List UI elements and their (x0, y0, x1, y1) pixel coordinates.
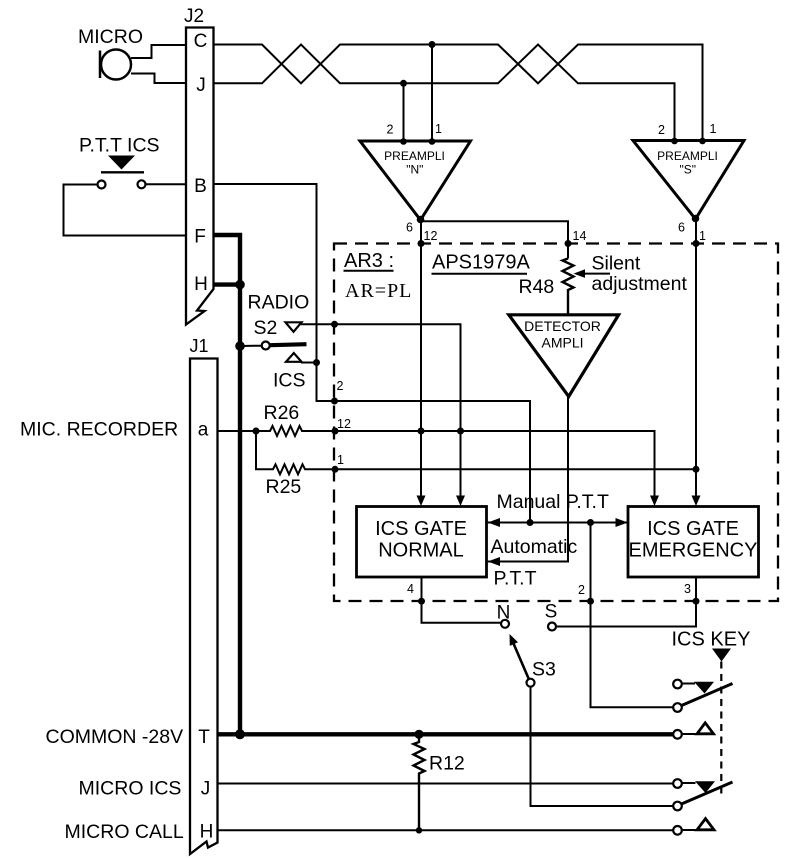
node T junction with F-H line (235, 729, 245, 739)
switch S2 pole contact (262, 342, 270, 350)
ics key switch 1 lever (682, 684, 733, 706)
common -28V end contact (673, 730, 682, 739)
svg-text:APS1979A: APS1979A (432, 252, 531, 274)
svg-text:COMMON -28V: COMMON -28V (46, 726, 184, 748)
svg-text:1: 1 (710, 122, 717, 136)
switch S2 lever (270, 344, 306, 345)
common -28V open triangle (697, 723, 714, 734)
svg-text:H: H (200, 822, 214, 843)
svg-text:F: F (194, 227, 206, 248)
svg-text:AR=PL: AR=PL (345, 280, 412, 302)
connector J2 body (186, 28, 214, 325)
svg-text:Automatic: Automatic (491, 536, 578, 558)
pin dot 2 preamp N (400, 138, 407, 145)
microphone symbol (100, 50, 131, 80)
svg-text:14: 14 (573, 229, 587, 243)
switch S3 N contact (501, 620, 509, 628)
svg-text:C: C (194, 31, 208, 52)
wire ics key line below module (591, 523, 674, 708)
svg-text:MICRO CALL: MICRO CALL (65, 821, 184, 843)
wire preamp N output down into module (420, 220, 422, 498)
switch S3 pole contact (527, 679, 535, 687)
wire J (bottom of twisted pair) (214, 45, 675, 142)
ics key switch 2 upper contact (673, 779, 682, 788)
op-amp U3 DETECTOR AMPLI (509, 315, 619, 397)
ics key switch 2 stub (682, 782, 696, 784)
svg-text:P.T.T: P.T.T (494, 568, 537, 590)
ics key switch 2 lever (682, 782, 733, 804)
arrowhead automatic into normal gate (488, 557, 500, 566)
ics key switch 2 contact wedge (695, 781, 715, 793)
svg-text:1: 1 (435, 122, 442, 136)
svg-text:DETECTOR: DETECTOR (524, 318, 601, 334)
wire pin a with resistor R26 to module pin 12 (218, 426, 655, 497)
svg-text:EMERGENCY: EMERGENCY (629, 540, 758, 562)
node pin 3 on module edge (693, 598, 700, 605)
pushbutton P.T.T ICS actuator (108, 156, 135, 170)
wire micro to pin C (131, 45, 186, 58)
ics key switch 2 lower contact (673, 802, 682, 811)
wire S2 ics contact to B line (301, 362, 317, 364)
svg-text:2: 2 (658, 123, 665, 137)
ics key switch 1 upper contact (673, 680, 682, 689)
arrowhead radio wire into normal gate (456, 496, 465, 507)
node ics contact junction (313, 359, 320, 366)
node pin 12 at module edge (332, 428, 339, 435)
arrowhead manual into normal gate (488, 518, 500, 527)
svg-text:ICS GATE: ICS GATE (647, 518, 739, 540)
common -28V stub (682, 733, 697, 735)
ics key linkage dashed (720, 662, 722, 798)
svg-text:ICS: ICS (273, 370, 306, 392)
svg-text:2: 2 (387, 123, 394, 137)
wire to S2 pole (240, 345, 261, 347)
switch S3 lever arrowhead (510, 634, 519, 646)
wire right contact to pin B (146, 183, 186, 185)
wire pin F thick (214, 235, 241, 734)
node at preamp S output apex (692, 215, 700, 223)
wire S2 radio contact into module (301, 324, 461, 497)
arrowhead manual into emergency gate (616, 518, 628, 527)
ics key switch 1 contact wedge (694, 682, 714, 694)
svg-text:R48: R48 (519, 276, 555, 298)
svg-text:T: T (198, 727, 210, 748)
svg-text:R12: R12 (429, 753, 465, 775)
arrowhead preamp N into normal gate (417, 496, 426, 507)
svg-text:"N": "N" (406, 163, 423, 177)
svg-text:MIC. RECORDER: MIC. RECORDER (20, 419, 178, 441)
op-amp U2 PREAMPLI S (633, 141, 744, 220)
svg-text:3: 3 (684, 582, 691, 596)
switch S2 ics contact (286, 353, 302, 362)
wire preamp S output down into module (695, 219, 697, 498)
node at preamp N output apex (417, 216, 425, 224)
micro call end contact (673, 826, 682, 835)
box ICS GATE NORMAL (357, 507, 487, 578)
svg-text:4: 4 (407, 582, 414, 596)
wire branch with resistor R25 to module pin 1 (256, 431, 696, 474)
svg-text:1: 1 (337, 453, 344, 467)
svg-text:12: 12 (337, 417, 351, 431)
box ICS GATE EMERGENCY (628, 507, 759, 578)
svg-text:Manual P.T.T: Manual P.T.T (497, 491, 609, 513)
svg-text:S3: S3 (532, 659, 556, 681)
node pin1 wire joins preamp S line (693, 466, 700, 473)
wire left contact loop to pin F (64, 185, 187, 236)
switch S2 radio contact (286, 322, 302, 332)
op-amp U1 PREAMPLI N (360, 141, 471, 220)
svg-text:NORMAL: NORMAL (378, 540, 464, 562)
silent adjustment arrow (574, 269, 586, 278)
switch S3 S contact (548, 623, 556, 631)
svg-text:AMPLI: AMPLI (541, 335, 583, 351)
svg-text:R26: R26 (264, 402, 300, 424)
node pin 2 at module edge (331, 398, 338, 405)
arrowhead pin12 wire into emergency gate (650, 496, 659, 507)
wire micro to pin J (131, 74, 186, 84)
wire automatic ptt from detector (488, 397, 568, 562)
svg-text:2: 2 (578, 583, 585, 597)
svg-text:H: H (194, 274, 208, 295)
svg-text:J: J (201, 779, 211, 800)
node R12 bottom on micro call wire (416, 827, 422, 833)
svg-text:R25: R25 (266, 476, 302, 498)
svg-text:MICRO ICS: MICRO ICS (79, 778, 182, 800)
svg-text:ICS GATE: ICS GATE (375, 518, 467, 540)
pin dot 1 preamp N (429, 138, 436, 145)
pushbutton right contact (138, 180, 146, 188)
resistor R12 (414, 734, 425, 830)
svg-text:S2: S2 (254, 317, 278, 339)
wire manual ptt between gates (488, 522, 628, 524)
svg-text:J1: J1 (190, 336, 209, 356)
wire pin H thick (215, 282, 241, 286)
node on wire C feeding preamp N pin 1 (429, 41, 436, 48)
resistor R48 (563, 259, 574, 315)
svg-text:6: 6 (678, 221, 685, 235)
svg-text:MICRO: MICRO (78, 26, 143, 48)
svg-text:PREAMPLI: PREAMPLI (657, 149, 718, 163)
connector J1 body (190, 359, 218, 855)
wire preamp N output to R48 (pin 14 branch) (421, 221, 569, 258)
micro call open triangle (697, 819, 714, 830)
wire S3 pole to micro ics key switch (531, 687, 674, 806)
node radio wire at module edge (331, 321, 338, 328)
node manual ptt to ics key (587, 519, 594, 526)
switch S3 lever (514, 644, 529, 680)
pin dot 1 preamp S (699, 138, 706, 145)
node pin 1 at module edge (332, 466, 339, 473)
svg-text:P.T.T ICS: P.T.T ICS (79, 135, 160, 157)
arrowhead preamp S into emergency gate (692, 496, 701, 507)
svg-text:J: J (196, 75, 206, 96)
svg-text:"S": "S" (680, 163, 697, 177)
svg-text:adjustment: adjustment (592, 273, 688, 295)
wire pin J micro ics (218, 783, 674, 785)
node pin 14 at module edge (565, 240, 572, 247)
ics key switch 1 stub (682, 683, 695, 685)
ics key actuator (712, 649, 731, 662)
svg-text:AR3 :: AR3 : (344, 250, 394, 272)
node bottom pin 2 on module edge (587, 598, 594, 605)
wire to preamp N pin 1 (431, 45, 433, 142)
svg-text:B: B (194, 176, 207, 197)
wire to preamp N pin 2 (403, 83, 405, 141)
pushbutton left contact (98, 181, 106, 189)
svg-text:S: S (545, 602, 558, 623)
node manual ptt from pin B wire (527, 519, 534, 526)
node pin12 wire crosses radio line (457, 428, 464, 435)
svg-text:Silent: Silent (592, 253, 641, 275)
svg-text:J2: J2 (184, 6, 204, 27)
wire normal gate pin 4 to switch S3 N contact (422, 577, 501, 623)
node preamp N output at module edge pin 12 (418, 240, 425, 247)
svg-text:2: 2 (337, 379, 344, 393)
wire pin B to module (214, 184, 531, 523)
svg-text:PREAMPLI: PREAMPLI (384, 149, 445, 163)
node S2 pole on -28V line (235, 341, 245, 351)
node on wire J feeding preamp N pin 2 (400, 80, 407, 87)
svg-text:ICS KEY: ICS KEY (672, 629, 751, 651)
micro call stub (682, 829, 697, 831)
wire C (top of twisted pair) (214, 45, 703, 142)
node H junction (235, 280, 245, 290)
svg-text:6: 6 (406, 221, 413, 235)
wire pin H micro call (218, 829, 674, 831)
svg-text:RADIO: RADIO (248, 292, 310, 314)
svg-text:1: 1 (699, 229, 706, 243)
module AR3 dashed box (334, 244, 778, 602)
pin dot 2 preamp S (671, 138, 678, 145)
svg-text:a: a (198, 420, 209, 441)
node pin12 wire crosses preamp N line (418, 428, 425, 435)
node R25 branch (253, 428, 260, 435)
ics key switch 1 lower contact (673, 703, 682, 712)
node pin 4 on module edge (418, 598, 425, 605)
node preamp S output at module edge pin 1 (693, 240, 700, 247)
wire emergency gate pin 3 to switch S3 S contact (556, 577, 696, 627)
wire pin T common -28V thick (218, 732, 674, 736)
svg-text:12: 12 (424, 229, 438, 243)
node R12 top (414, 730, 423, 739)
